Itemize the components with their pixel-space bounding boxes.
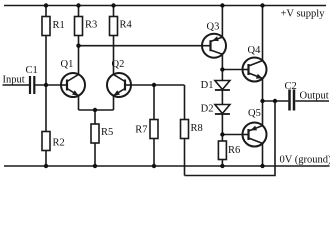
svg-text:Q1: Q1	[61, 59, 74, 70]
svg-text:+V supply: +V supply	[281, 9, 326, 20]
svg-text:R5: R5	[101, 127, 113, 138]
svg-text:R1: R1	[53, 20, 65, 31]
svg-text:Q3: Q3	[207, 22, 220, 33]
svg-text:Input: Input	[3, 75, 25, 86]
svg-text:Q4: Q4	[248, 45, 262, 56]
svg-text:R3: R3	[85, 20, 97, 31]
svg-text:R7: R7	[135, 125, 147, 136]
svg-text:R8: R8	[191, 123, 203, 134]
svg-text:Output: Output	[300, 91, 329, 102]
svg-text:Q2: Q2	[112, 59, 125, 70]
svg-text:C2: C2	[285, 81, 297, 92]
svg-text:R6: R6	[228, 145, 240, 156]
svg-text:0V (ground): 0V (ground)	[280, 155, 330, 166]
svg-text:R4: R4	[120, 20, 133, 31]
svg-text:D1: D1	[201, 80, 214, 91]
svg-text:Q5: Q5	[248, 108, 261, 119]
svg-text:C1: C1	[26, 65, 38, 76]
svg-text:R2: R2	[53, 138, 65, 149]
svg-text:D2: D2	[201, 104, 214, 115]
